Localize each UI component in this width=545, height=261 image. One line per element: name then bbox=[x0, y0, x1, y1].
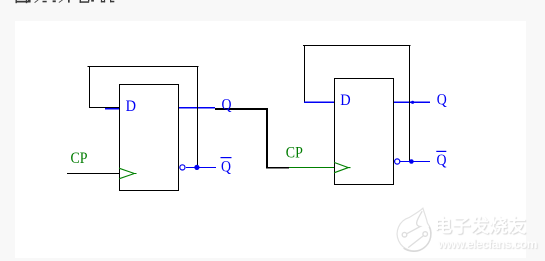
wire: U1 feedback top horizontal bbox=[88, 66, 199, 67]
svg-text:CP: CP bbox=[71, 150, 88, 167]
svg-text:Q: Q bbox=[437, 92, 447, 109]
svg-text:Q: Q bbox=[221, 159, 231, 176]
wire: U2 Qbar blue segment bbox=[400, 161, 430, 162]
U2 crossover dot on Q wire bbox=[411, 101, 414, 104]
wire: U2 Q output blue segment bbox=[394, 102, 430, 103]
wire: U1 Q output blue segment bbox=[179, 107, 215, 109]
wire: U1 feedback left vertical bbox=[89, 66, 90, 108]
wire: U2 feedback top horizontal bbox=[303, 45, 411, 46]
wire: U2 feedback left vertical bbox=[304, 45, 305, 102]
wire: U1 D input blue segment bbox=[105, 108, 120, 109]
svg-text:Q: Q bbox=[222, 97, 232, 114]
svg-text:CP: CP bbox=[286, 145, 303, 162]
watermark logo disc bbox=[397, 208, 431, 251]
wire: U2 D input blue segment bbox=[304, 102, 334, 103]
U1 junction dot (Qbar node) bbox=[194, 165, 199, 170]
svg-text:Q: Q bbox=[437, 152, 447, 169]
U2 inversion bubble bbox=[395, 159, 400, 164]
wire: Q net thick black horizontal bbox=[215, 108, 268, 110]
U2 clock chevron bbox=[334, 162, 351, 172]
svg-text:D: D bbox=[126, 98, 136, 115]
wire: Q net vertical down bbox=[266, 108, 268, 168]
flip-flop U2 box bbox=[334, 78, 394, 185]
U2 junction dot (Qbar node) bbox=[409, 159, 414, 164]
wire: Q net lower horizontal bbox=[266, 167, 289, 169]
U1 clock chevron bbox=[119, 168, 137, 179]
wire: U1 feedback right vertical (Qbar to top) bbox=[197, 66, 198, 166]
U1 inversion bubble bbox=[180, 165, 185, 170]
wire: U2 feedback right vertical (Qbar to top) bbox=[409, 45, 410, 161]
wire: U1 D input black segment bbox=[89, 107, 119, 108]
wire: U1 Qbar blue segment bbox=[186, 167, 216, 168]
wire: CP2 green segment to U2 clock bbox=[289, 167, 334, 168]
flip-flop U1 box bbox=[119, 84, 179, 191]
wire: U1 CP input bbox=[67, 173, 119, 174]
svg-text:D: D bbox=[340, 92, 350, 109]
watermark text bbox=[434, 212, 544, 238]
